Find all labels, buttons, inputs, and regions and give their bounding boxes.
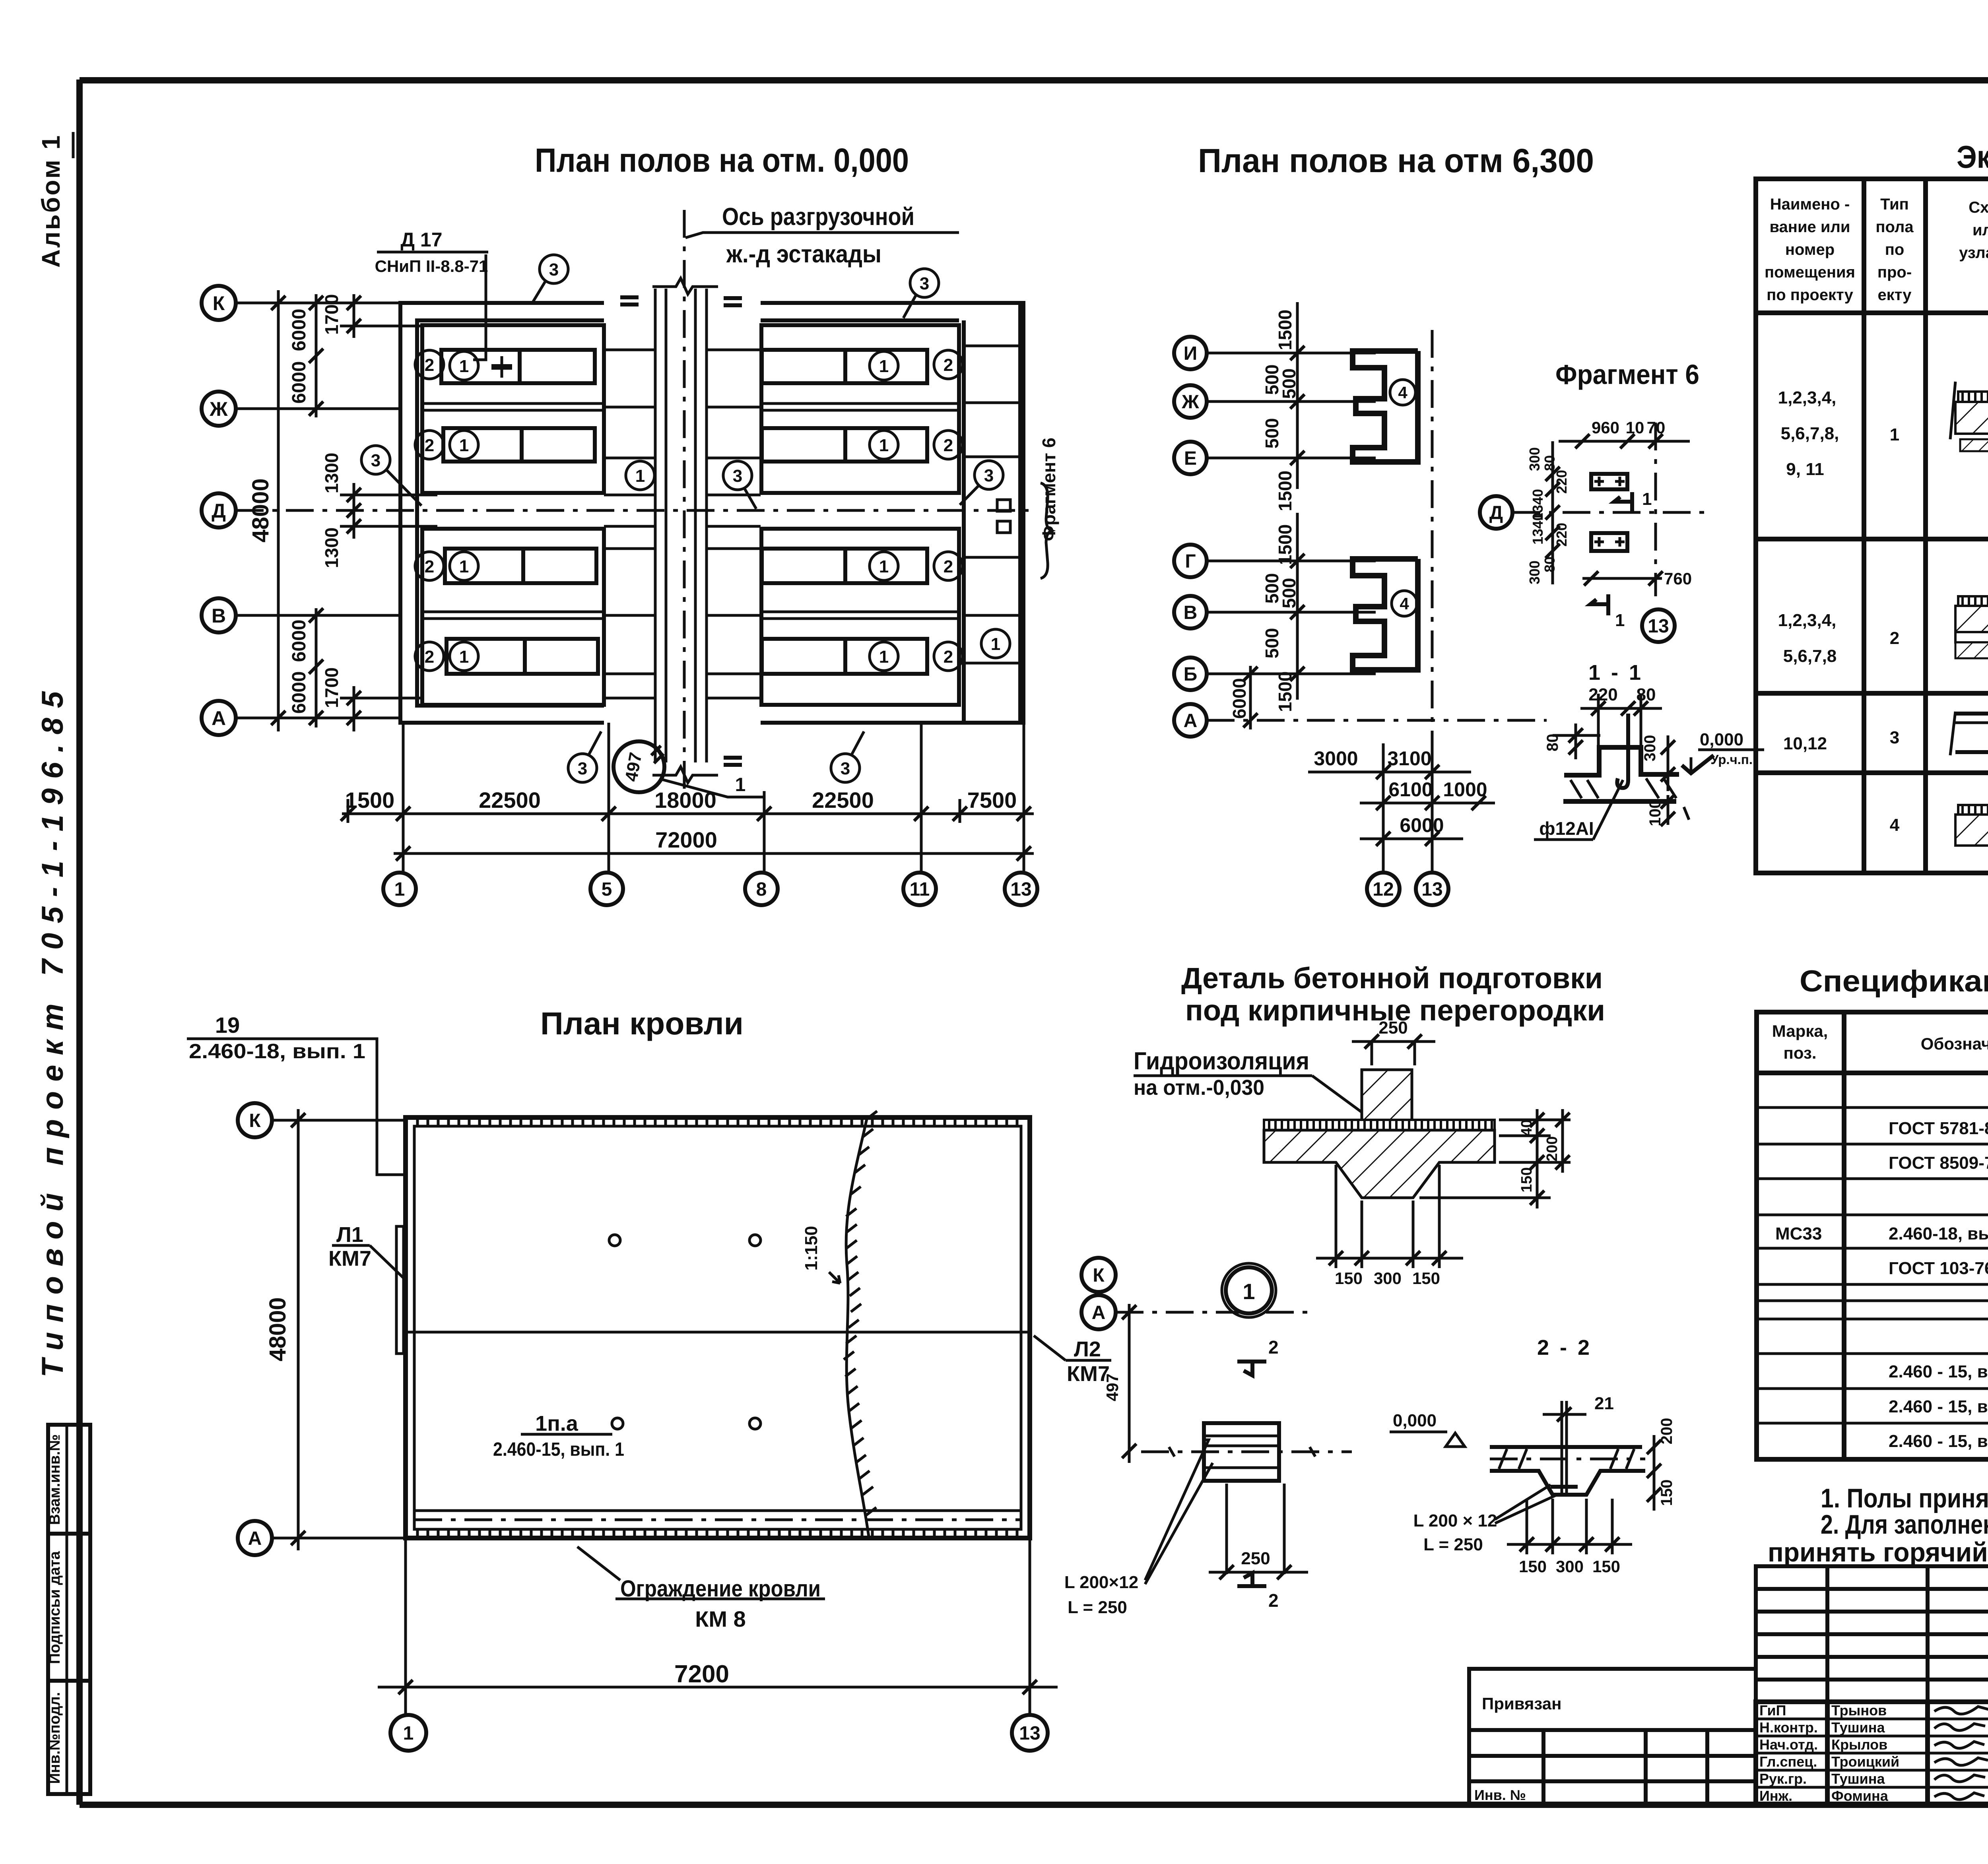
svg-text:1500: 1500 — [1275, 471, 1295, 511]
svg-text:0,000: 0,000 — [1393, 1411, 1437, 1430]
svg-text:80: 80 — [1544, 734, 1561, 752]
497 circle — [613, 741, 664, 792]
svg-text:Фрагмент 6: Фрагмент 6 — [1555, 359, 1699, 390]
svg-text:Д 17: Д 17 — [400, 229, 442, 251]
svg-text:пола: пола — [1875, 218, 1914, 236]
svg-text:Л1: Л1 — [336, 1223, 363, 1247]
svg-text:Наимено -: Наимено - — [1770, 196, 1850, 213]
svg-text:1: 1 — [879, 647, 889, 667]
svg-text:5: 5 — [602, 879, 612, 900]
svg-text:Экспликация полов: Экспликация полов — [1957, 139, 1988, 175]
svg-text:Инж.: Инж. — [1759, 1788, 1792, 1804]
two wall-end rects — [1591, 474, 1627, 489]
svg-text:по проекту: по проекту — [1767, 286, 1854, 304]
right bins labels — [870, 350, 1010, 671]
svg-text:2: 2 — [944, 436, 953, 455]
right dim 300 — [1667, 735, 1670, 791]
left margin: album label — [36, 132, 73, 1377]
svg-text:Троицкий: Троицкий — [1831, 1753, 1899, 1770]
svg-text:22500: 22500 — [812, 787, 874, 813]
svg-text:1: 1 — [879, 557, 889, 576]
svg-text:3: 3 — [984, 466, 994, 485]
svg-text:4: 4 — [1398, 383, 1408, 402]
circled 3 labels with leaders — [361, 255, 1003, 782]
svg-text:Гл.спец.: Гл.спец. — [1759, 1753, 1817, 1770]
привязан box — [1469, 1669, 1756, 1805]
svg-text:1500: 1500 — [345, 787, 395, 813]
svg-text:План кровли: План кровли — [540, 1006, 744, 1041]
svg-text:1500: 1500 — [1275, 671, 1295, 712]
drains — [609, 1235, 620, 1246]
left dims 48000 — [277, 290, 280, 731]
svg-text:300: 300 — [1374, 1269, 1402, 1288]
svg-text:Обозначение: Обозначение — [1921, 1034, 1988, 1053]
bottom extension lines — [348, 723, 1024, 873]
svg-text:19: 19 — [215, 1012, 240, 1038]
svg-text:70: 70 — [1647, 418, 1666, 437]
top dims 220 80 — [1580, 707, 1662, 710]
497 dim — [1128, 1304, 1131, 1463]
svg-text:Типовой проект 705-1-196.85: Типовой проект 705-1-196.85 — [36, 682, 70, 1377]
axis row circles К Ж Д В А — [202, 286, 236, 735]
svg-text:3000: 3000 — [1314, 747, 1358, 770]
svg-text:ф12АI: ф12АI — [1539, 818, 1594, 839]
svg-text:ГОСТ 103-76: ГОСТ 103-76 — [1889, 1259, 1988, 1278]
bottom dim row 2 — [394, 852, 1034, 855]
section 2-2 — [1390, 1336, 1675, 1576]
svg-text:поз.: поз. — [1783, 1044, 1816, 1062]
svg-text:Ур.ч.п.: Ур.ч.п. — [1710, 752, 1753, 767]
svg-text:3: 3 — [733, 466, 742, 486]
svg-text:СНиП II-8.8-71: СНиП II-8.8-71 — [375, 257, 488, 275]
svg-text:6000: 6000 — [1400, 814, 1444, 836]
upper small grid — [1756, 1566, 1988, 1702]
svg-text:80: 80 — [1541, 455, 1558, 471]
section cut 2 bottom — [1237, 1573, 1266, 1586]
section 1-1 — [1534, 661, 1764, 840]
svg-text:150: 150 — [1592, 1557, 1620, 1576]
svg-text:1: 1 — [1890, 425, 1899, 444]
svg-text:500: 500 — [1262, 418, 1282, 449]
left axis circles — [238, 1103, 272, 1137]
svg-text:220: 220 — [1553, 470, 1570, 494]
svg-text:8: 8 — [756, 879, 767, 900]
svg-text:узла по серии: узла по серии — [1959, 244, 1988, 262]
signatures — [1934, 1707, 1988, 1800]
svg-text:500: 500 — [1279, 578, 1299, 609]
svg-text:150: 150 — [1412, 1269, 1440, 1288]
svg-text:Л2: Л2 — [1074, 1337, 1101, 1361]
axis row lines — [236, 302, 400, 305]
svg-text:Д: Д — [1489, 502, 1503, 524]
svg-text:Б: Б — [1184, 664, 1198, 685]
svg-text:12: 12 — [1373, 879, 1394, 900]
svg-text:К: К — [1093, 1265, 1105, 1286]
svg-text:1: 1 — [1615, 611, 1625, 630]
left dim 80 — [1574, 723, 1577, 759]
svg-text:500: 500 — [1262, 628, 1282, 659]
svg-text:1: 1 — [735, 774, 746, 795]
lower П wall — [1353, 559, 1418, 670]
floor slab — [1264, 1120, 1495, 1130]
svg-text:Фомина: Фомина — [1831, 1788, 1889, 1804]
svg-text:500: 500 — [1279, 369, 1299, 399]
bottom dims — [1507, 1499, 1632, 1554]
svg-text:9, 11: 9, 11 — [1786, 460, 1824, 479]
right corridor cell lines — [964, 346, 1020, 663]
slab — [1490, 1447, 1645, 1495]
svg-text:22500: 22500 — [479, 787, 541, 813]
svg-text:принять горячий битум.: принять горячий битум. — [1768, 1537, 1988, 1567]
right block inner boxes — [761, 325, 959, 493]
svg-text:1,2,3,4,: 1,2,3,4, — [1778, 388, 1837, 407]
svg-text:1: 1 — [403, 1723, 414, 1744]
column circles — [383, 873, 1037, 905]
bottom dims 150 300 150 — [1316, 1165, 1463, 1268]
svg-text:7200: 7200 — [674, 1660, 729, 1688]
svg-text:300: 300 — [1641, 735, 1659, 762]
svg-text:6100: 6100 — [1388, 778, 1433, 801]
svg-text:300: 300 — [1556, 1557, 1584, 1576]
svg-text:3: 3 — [578, 759, 587, 778]
svg-text:1000: 1000 — [1443, 778, 1487, 801]
axis lines — [1207, 353, 1376, 674]
right bins — [762, 350, 927, 674]
svg-text:Взам.инв.№: Взам.инв.№ — [47, 1434, 63, 1525]
left rotated dims — [1551, 441, 1554, 584]
bottom dims of plan63 — [1308, 743, 1495, 873]
svg-text:6000: 6000 — [289, 620, 310, 662]
svg-text:L 200 × 12: L 200 × 12 — [1413, 1511, 1497, 1530]
svg-text:Ось разгрузочной: Ось разгрузочной — [722, 203, 914, 231]
bottom railing lines — [414, 1509, 1021, 1512]
svg-text:1: 1 — [1642, 489, 1652, 509]
250 dim below — [1209, 1571, 1308, 1574]
svg-text:200: 200 — [1544, 1136, 1561, 1161]
svg-text:Г: Г — [1185, 551, 1196, 572]
svg-text:13: 13 — [1019, 1723, 1040, 1744]
svg-text:10,12: 10,12 — [1783, 734, 1827, 753]
svg-text:6000: 6000 — [289, 671, 310, 714]
svg-text:300: 300 — [1526, 447, 1543, 471]
svg-text:1300: 1300 — [321, 528, 342, 568]
svg-text:Привязан: Привязан — [1482, 1694, 1561, 1713]
svg-text:План полов на отм. 0,000: План полов на отм. 0,000 — [535, 142, 909, 179]
svg-text:Е: Е — [1184, 448, 1197, 469]
hatch slashes — [1571, 778, 1689, 820]
svg-text:1: 1 — [394, 879, 405, 900]
svg-text:3100: 3100 — [1387, 747, 1431, 770]
axis circles И Ж Е Г В Б А — [1174, 337, 1207, 737]
svg-text:ГОСТ 8509-72*: ГОСТ 8509-72* — [1889, 1153, 1988, 1173]
svg-text:6000: 6000 — [1229, 678, 1250, 719]
svg-text:1: 1 — [879, 357, 889, 376]
svg-text:80: 80 — [1637, 685, 1656, 704]
slope hatch ticks — [844, 1111, 877, 1515]
svg-text:220: 220 — [1553, 523, 1570, 547]
svg-text:4: 4 — [1890, 815, 1900, 835]
svg-text:Спецификация стали на полы: Спецификация стали на полы и кровлю — [1800, 964, 1988, 998]
svg-text:екту: екту — [1877, 286, 1912, 304]
svg-text:Фрагмент 6: Фрагмент 6 — [1039, 438, 1059, 541]
100 dim — [1667, 795, 1670, 825]
svg-text:300: 300 — [1526, 561, 1543, 584]
svg-text:Тушина: Тушина — [1831, 1771, 1885, 1787]
svg-text:или номер: или номер — [1972, 221, 1988, 239]
plan 0.000 title — [202, 142, 1059, 905]
left stamp boxes — [47, 1425, 90, 1794]
svg-text:2: 2 — [1890, 628, 1899, 648]
svg-text:5,6,7,8,: 5,6,7,8, — [1781, 424, 1839, 443]
top dims 960 10 70 — [1559, 440, 1690, 443]
250 dim — [1352, 1040, 1435, 1043]
svg-text:Тип: Тип — [1880, 196, 1909, 213]
svg-text:Нач.отд.: Нач.отд. — [1759, 1736, 1818, 1753]
svg-text:18000: 18000 — [654, 787, 716, 813]
svg-text:497: 497 — [1103, 1373, 1122, 1401]
svg-text:ж.-д эстакады: ж.-д эстакады — [726, 241, 881, 268]
svg-text:Деталь бетонной подготовки: Деталь бетонной подготовки — [1181, 962, 1603, 995]
svg-text:1: 1 — [459, 557, 469, 576]
svg-text:1: 1 — [459, 647, 469, 667]
central labels — [626, 461, 654, 490]
svg-text:6000: 6000 — [289, 309, 310, 351]
central rail trestle — [652, 278, 718, 783]
svg-text:А: А — [1184, 710, 1198, 731]
right block outer walls — [761, 303, 1023, 723]
central platform lines — [604, 350, 761, 698]
svg-text:2.460-18, вып. 3: 2.460-18, вып. 3 — [1889, 1224, 1988, 1243]
bottom dim row 1 — [342, 813, 1034, 815]
svg-text:6000: 6000 — [289, 361, 310, 404]
header texts — [1765, 196, 1988, 304]
svg-text:Гидроизоляция: Гидроизоляция — [1134, 1047, 1309, 1075]
svg-text:40: 40 — [1518, 1119, 1535, 1136]
svg-text:7500: 7500 — [967, 787, 1017, 813]
row1 — [1778, 388, 1988, 479]
760 dim — [1582, 577, 1662, 580]
svg-text:2: 2 — [944, 557, 953, 576]
svg-text:ГОСТ 5781-82: ГОСТ 5781-82 — [1889, 1119, 1988, 1138]
svg-text:2: 2 — [425, 436, 434, 455]
svg-text:Инв.№подл.: Инв.№подл. — [47, 1692, 63, 1784]
svg-text:1: 1 — [635, 466, 645, 486]
svg-text:Ж: Ж — [209, 398, 228, 420]
svg-text:1: 1 — [991, 634, 1000, 654]
svg-text:В: В — [1184, 602, 1198, 623]
left block outer walls — [400, 303, 604, 723]
svg-text:К: К — [213, 292, 225, 314]
svg-text:150: 150 — [1658, 1480, 1675, 1506]
svg-text:1500: 1500 — [1275, 524, 1295, 565]
curb profile — [1564, 747, 1679, 775]
svg-text:2.460 - 15, вып. 1: 2.460 - 15, вып. 1 — [1889, 1431, 1988, 1451]
48000 dim — [297, 1109, 300, 1550]
svg-text:вание или: вание или — [1769, 218, 1850, 236]
svg-text:L = 250: L = 250 — [1423, 1535, 1483, 1554]
railing teeth top/bottom — [417, 1117, 1017, 1538]
anchor bolt with hook — [1617, 714, 1628, 788]
notes — [1768, 1483, 1988, 1567]
svg-text:13: 13 — [1010, 879, 1031, 900]
svg-text:Схема пола: Схема пола — [1969, 199, 1988, 216]
svg-text:Н.контр.: Н.контр. — [1759, 1719, 1818, 1736]
plan 6.300 — [1174, 142, 1594, 905]
svg-text:2.460-15, вып. 1: 2.460-15, вып. 1 — [493, 1439, 624, 1460]
svg-text:2.460 - 15, вып. 1: 2.460 - 15, вып. 1 — [1889, 1397, 1988, 1416]
svg-text:ГиП: ГиП — [1759, 1702, 1786, 1719]
svg-text:МС33: МС33 — [1775, 1224, 1822, 1243]
svg-text:3: 3 — [371, 451, 381, 470]
svg-text:1: 1 — [1242, 1279, 1255, 1304]
svg-text:1340: 1340 — [1530, 513, 1546, 545]
svg-text:100: 100 — [1646, 800, 1664, 826]
svg-text:1. Полы приняты по СНиП II-: 1. Полы приняты по СНиП II-В. 8-71. — [1821, 1483, 1988, 1513]
title block — [1469, 1566, 1988, 1806]
svg-text:150: 150 — [1519, 1557, 1547, 1576]
svg-text:48000: 48000 — [265, 1297, 291, 1361]
Ограждение кровли КМ8 — [577, 1547, 620, 1580]
svg-text:1п.а: 1п.а — [535, 1412, 579, 1435]
svg-text:А: А — [248, 1528, 262, 1549]
svg-text:10: 10 — [1626, 418, 1644, 437]
svg-text:про-: про- — [1877, 264, 1912, 281]
svg-text:L 200×12: L 200×12 — [1064, 1573, 1138, 1592]
svg-text:на отм.-0,030: на отм.-0,030 — [1134, 1076, 1264, 1100]
explication table — [1756, 139, 1988, 873]
left dims 6000s — [315, 294, 318, 417]
svg-text:1:150: 1:150 — [802, 1226, 821, 1271]
fragment 6 detail — [1480, 359, 1710, 642]
table grid — [1756, 179, 1988, 873]
brick pier — [1362, 1070, 1412, 1125]
svg-text:1: 1 — [879, 436, 889, 455]
svg-text:1 - 1: 1 - 1 — [1588, 661, 1643, 685]
svg-text:2: 2 — [425, 355, 434, 375]
left dims 1700/1300 — [353, 294, 355, 338]
svg-text:номер: номер — [1785, 241, 1835, 258]
svg-text:Марка,: Марка, — [1772, 1022, 1828, 1040]
svg-text:Трынов: Трынов — [1831, 1702, 1887, 1719]
svg-text:2: 2 — [944, 647, 953, 667]
svg-text:2: 2 — [1268, 1590, 1279, 1611]
svg-text:2. Для заполнения деформацио: 2. Для заполнения деформационных швов в … — [1821, 1509, 1988, 1540]
svg-text:по: по — [1885, 241, 1905, 258]
svg-text:1500: 1500 — [1275, 310, 1295, 350]
left bins labels — [415, 350, 478, 671]
svg-text:2: 2 — [944, 355, 953, 375]
svg-text:760: 760 — [1664, 569, 1692, 588]
node 1 detail — [1064, 1263, 1352, 1617]
row2 — [1778, 610, 1988, 666]
vertical axis 13 dash line — [1431, 330, 1434, 743]
right К А circles — [1081, 1258, 1116, 1292]
upper П wall — [1353, 351, 1418, 462]
svg-text:80: 80 — [1541, 557, 1558, 572]
svg-text:Крылов: Крылов — [1831, 1736, 1887, 1753]
svg-text:3: 3 — [1890, 728, 1899, 747]
svg-text:2: 2 — [1268, 1337, 1279, 1358]
svg-text:2: 2 — [425, 557, 434, 576]
svg-text:Альбом 1: Альбом 1 — [37, 134, 65, 268]
svg-text:1300: 1300 — [321, 453, 342, 493]
svg-text:13: 13 — [1648, 616, 1669, 637]
svg-text:2: 2 — [425, 647, 434, 667]
svg-text:КМ 8: КМ 8 — [695, 1606, 746, 1631]
section cut marks 1 — [1590, 492, 1632, 615]
row3 — [1783, 728, 1988, 762]
svg-text:13: 13 — [1421, 879, 1442, 900]
slope wavy line — [846, 1119, 869, 1536]
bottom dim 7200 — [404, 1538, 407, 1715]
roof plan — [187, 1006, 1116, 1751]
svg-text:Инв. №: Инв. № — [1474, 1787, 1526, 1803]
row1 schema — [1950, 382, 1988, 451]
svg-text:497: 497 — [621, 751, 646, 783]
svg-text:250: 250 — [1378, 1018, 1408, 1038]
svg-text:3: 3 — [920, 274, 929, 293]
svg-text:1700: 1700 — [321, 667, 342, 708]
svg-text:КМ7: КМ7 — [328, 1247, 371, 1270]
concrete prep detail — [1134, 962, 1605, 1288]
svg-text:1: 1 — [459, 357, 469, 376]
fragment 6 marker — [997, 500, 1010, 511]
svg-text:Рук.гр.: Рук.гр. — [1759, 1771, 1807, 1787]
svg-text:150: 150 — [1335, 1269, 1363, 1288]
svg-text:21: 21 — [1594, 1394, 1614, 1413]
svg-text:И: И — [1184, 343, 1198, 364]
svg-text:48000: 48000 — [248, 478, 274, 542]
svg-text:1,2,3,4,: 1,2,3,4, — [1778, 611, 1837, 630]
svg-text:План полов на отм 6,300: План полов на отм 6,300 — [1198, 142, 1594, 179]
left block upper inner box — [422, 325, 604, 493]
svg-text:2.460 - 15, вып. 1: 2.460 - 15, вып. 1 — [1889, 1362, 1988, 1381]
svg-text:150: 150 — [1518, 1167, 1535, 1192]
roof outline — [406, 1117, 1030, 1538]
svg-text:250: 250 — [1241, 1549, 1270, 1568]
svg-text:5,6,7,8: 5,6,7,8 — [1783, 646, 1837, 666]
bolt — [1561, 1401, 1563, 1493]
svg-text:В: В — [212, 605, 226, 627]
svg-text:200: 200 — [1658, 1418, 1675, 1445]
svg-text:А: А — [1092, 1302, 1106, 1323]
svg-text:Ж: Ж — [1181, 392, 1199, 413]
right dims 200 150 — [1653, 1435, 1656, 1511]
lower part — [1756, 1702, 1988, 1805]
svg-text:Подписьи дата: Подписьи дата — [47, 1551, 63, 1664]
left bins (compartment rects) — [441, 350, 598, 674]
equals marks — [620, 297, 742, 765]
right dims — [1419, 1109, 1571, 1208]
svg-text:4: 4 — [1400, 594, 1409, 613]
svg-text:0,000: 0,000 — [1700, 730, 1743, 749]
svg-text:помещения: помещения — [1765, 264, 1855, 281]
svg-text:Тушина: Тушина — [1831, 1719, 1885, 1736]
plate plan rect — [1204, 1423, 1279, 1481]
svg-text:L = 250: L = 250 — [1068, 1598, 1127, 1617]
svg-text:2 - 2: 2 - 2 — [1537, 1336, 1592, 1360]
vertical dims 1500/500 column — [1296, 302, 1299, 700]
svg-text:1: 1 — [459, 436, 469, 455]
svg-text:3: 3 — [841, 759, 850, 778]
svg-text:220: 220 — [1588, 685, 1617, 704]
svg-text:72000: 72000 — [655, 827, 717, 852]
svg-text:3: 3 — [549, 260, 559, 279]
svg-text:К: К — [249, 1110, 261, 1131]
left block lower inner box — [422, 529, 604, 705]
steel specification table — [1757, 964, 1988, 1459]
svg-text:960: 960 — [1592, 418, 1619, 437]
